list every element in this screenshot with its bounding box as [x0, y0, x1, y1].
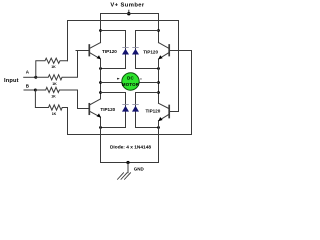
wire lower box top right: [136, 92, 159, 94]
svg-text:TIP120: TIP120: [145, 108, 160, 113]
svg-text:Input: Input: [4, 78, 19, 84]
ground: [118, 173, 131, 180]
resistor R2: [36, 51, 89, 86]
wire motor lead left: [101, 82, 122, 84]
resistor R4: [35, 90, 67, 116]
junction input B: [34, 89, 37, 92]
junction Q2 collector: [157, 29, 160, 32]
junction Q3 collector: [99, 91, 102, 94]
svg-text:GND: GND: [134, 166, 145, 171]
transistor Q3: [78, 99, 116, 118]
wire right lower column: [158, 121, 160, 163]
motor direction mark right: [140, 78, 141, 81]
svg-text:TIP120: TIP120: [102, 49, 117, 54]
wire lower box bottom right: [136, 127, 159, 129]
svg-text:1K: 1K: [52, 112, 57, 116]
diode D2: [132, 47, 139, 54]
wire input drive A top: [68, 21, 179, 112]
junction Q2 emitter: [157, 67, 160, 70]
svg-text:Diode: 4 x 1N4148: Diode: 4 x 1N4148: [110, 144, 151, 150]
wire lower box bottom left: [101, 127, 126, 129]
wire left mid column: [100, 59, 102, 99]
svg-text:DC: DC: [127, 75, 134, 80]
junction input A: [34, 76, 37, 79]
svg-text:A: A: [26, 69, 30, 74]
junction GND: [126, 161, 129, 164]
junction motor right: [157, 81, 160, 84]
motor M1: [122, 73, 140, 90]
wire motor lead right: [139, 82, 158, 84]
wire diode D2 column: [135, 31, 137, 69]
svg-text:TIP120: TIP120: [143, 49, 158, 54]
diode D4: [132, 104, 139, 111]
wire box bottom right: [136, 68, 159, 70]
transistor Q4: [145, 103, 178, 121]
svg-text:1K: 1K: [51, 95, 56, 99]
transistor Q2: [143, 43, 191, 60]
motor direction arrow left: [117, 78, 120, 80]
junction Q4 emitter: [157, 126, 160, 129]
wire box top left: [101, 30, 126, 32]
wire diode D3 column: [125, 93, 127, 128]
svg-text:V+ Sumber: V+ Sumber: [110, 3, 145, 9]
svg-text:1K: 1K: [52, 82, 57, 86]
wire input B: [24, 89, 35, 91]
junction Q1 collector: [99, 29, 102, 32]
junction Q1 emitter: [99, 67, 102, 70]
wire diode D4 column: [135, 93, 137, 128]
wire V+ stub: [128, 10, 130, 13]
wire box top right: [136, 30, 159, 32]
wire right mid column: [158, 59, 160, 103]
junction Q3 emitter: [99, 126, 102, 129]
resistor R1: [36, 58, 68, 77]
wire input drive B bottom: [68, 51, 192, 135]
resistor R3: [35, 87, 88, 108]
diode D1: [122, 47, 129, 54]
wire lower box top left: [101, 92, 126, 94]
transistor Q1: [76, 43, 117, 60]
junction motor left: [99, 81, 102, 84]
svg-text:TIP120: TIP120: [100, 107, 115, 112]
wire top rail: [101, 14, 159, 43]
wire box bottom left: [101, 68, 126, 70]
wire diode D1 column: [125, 31, 127, 69]
junction V+: [127, 12, 130, 15]
svg-text:1K: 1K: [51, 65, 56, 69]
svg-text:MOTOR: MOTOR: [122, 82, 140, 87]
wire left lower column: [100, 117, 102, 162]
junction Q4 collector: [157, 91, 160, 94]
wire bottom rail: [101, 162, 159, 164]
diode D3: [122, 104, 129, 111]
svg-text:B: B: [26, 83, 30, 88]
wire input A: [24, 76, 36, 78]
wire GND stub: [127, 163, 129, 173]
